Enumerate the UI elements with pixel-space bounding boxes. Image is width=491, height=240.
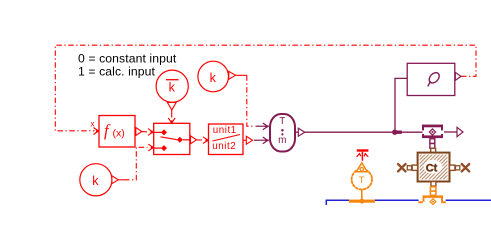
pipe bottom connector [430,139,435,149]
density box U5 [407,63,455,95]
svg-text:1 = calc. input: 1 = calc. input [78,65,156,79]
wire bottom k to switch input2 (dash-dot) [118,179,124,181]
wire k-bar to switch top [171,110,173,118]
circle k (top) [198,61,236,92]
wire k to oval input1 (dash-dot) [236,74,247,76]
Ct right ports [450,165,460,170]
svg-text:m: m [278,135,286,146]
junction node [392,130,397,135]
wire pipe output [444,131,457,133]
arrowhead into unit box [203,137,208,144]
wire f(x) to switch [142,131,147,133]
arrowhead into switch input2 [148,144,153,151]
pipe tee piece (maroon) [422,125,443,138]
arrowhead into switch top [168,118,175,123]
flow mixer T/mdot U4 [270,114,295,152]
circle k-bar (mode constant) [156,70,188,110]
arrowhead into f(x) [94,128,99,135]
switch output port triangle [191,136,197,144]
red unconnected input marker [357,149,369,161]
f(x) output port triangle [136,128,142,136]
Ct left ports [407,165,417,170]
orange pipe piece (bottom, clipped) [418,195,446,204]
Ct top port [431,148,436,152]
density box output port triangle [455,72,461,80]
svg-text:k: k [210,71,217,85]
switch block U2 [154,123,190,154]
unit box output port triangle [246,136,252,144]
wire branch to density box [395,78,407,132]
temperature sensor T circle [352,169,372,200]
wire blue pipe line [326,200,491,205]
circle k (bottom) [80,164,119,196]
svg-text:0 = constant input: 0 = constant input [78,52,177,66]
wire switch to unit box [197,139,203,141]
orange connector below Ct [430,187,436,196]
oval output port triangle [295,131,298,133]
equation block f(x) U1 [99,116,135,148]
svg-text:(x): (x) [113,127,125,139]
Ct bottom port [431,182,436,187]
orange tee junction on blue line [349,200,375,203]
arrowhead into switch input1 [148,129,153,136]
oval T/mdot input stubs [254,123,269,144]
svg-text:T: T [359,175,365,186]
svg-text:k: k [92,174,99,188]
wire: dash-dot control loop rectangle [55,45,476,131]
svg-text:T: T [279,116,285,127]
wire main flow line [305,131,423,133]
svg-text:unit2: unit2 [212,141,236,152]
svg-text:k: k [169,81,176,95]
unit converter block U3 [209,124,244,155]
annotation text [78,52,177,79]
capacitance Ct block [418,153,450,182]
output arrow triangle [457,127,463,136]
svg-text:unit1: unit1 [213,125,237,136]
svg-text:Ct: Ct [426,162,438,174]
sensor top connector triangle [356,163,367,172]
